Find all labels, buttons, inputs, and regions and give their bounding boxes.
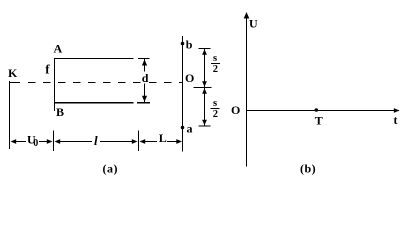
bottom dimension tick at plates right — [138, 131, 140, 152]
l segment right arrowhead — [132, 139, 138, 144]
s/2 upper arrowhead up — [202, 49, 207, 55]
s/2 dimension upper arrow line — [204, 49, 206, 88]
svg-text:l: l — [94, 133, 98, 148]
beam axis dashed line first dash — [10, 82, 21, 84]
graph U axis arrowhead — [244, 12, 250, 19]
plate A top plate — [54, 58, 134, 60]
s/2 upper arrowhead down — [202, 81, 207, 87]
screen point b dot — [181, 42, 185, 46]
s/2 dimension top tick — [199, 48, 211, 50]
plate B bottom plate — [54, 102, 134, 104]
gap d dimension up arrowhead — [142, 60, 147, 66]
svg-text:T: T — [315, 114, 323, 128]
L segment left arrowhead — [140, 139, 146, 144]
gap d dimension arrow line upper — [144, 59, 146, 72]
graph U axis vertical — [246, 13, 248, 167]
svg-text:f: f — [45, 62, 50, 77]
gap d dimension bottom tick — [137, 102, 150, 104]
svg-text:d: d — [142, 71, 149, 85]
L segment right arrowhead — [176, 139, 182, 144]
svg-text:A: A — [54, 42, 63, 56]
svg-text:(a): (a) — [103, 162, 119, 176]
beam axis dashed line right of d label — [149, 82, 183, 84]
svg-text:B: B — [56, 105, 64, 119]
s/2 lower arrowhead up — [202, 88, 207, 94]
svg-text:s: s — [213, 53, 217, 64]
svg-text:O: O — [231, 103, 240, 117]
svg-text:2: 2 — [213, 64, 218, 75]
L segment left line — [144, 141, 157, 143]
left extension line below K — [9, 81, 11, 149]
svg-text:a: a — [187, 122, 193, 136]
svg-text:b: b — [186, 38, 193, 52]
gap d dimension arrow line lower — [144, 84, 146, 103]
screen vertical line — [182, 36, 184, 152]
graph t axis arrowhead — [394, 108, 400, 113]
gap d dimension down arrowhead — [142, 96, 147, 102]
svg-text:O: O — [185, 71, 194, 85]
beam axis dashed line left of d label — [28, 82, 141, 84]
l segment left line — [59, 141, 92, 143]
gap d dimension top tick — [138, 58, 150, 60]
s/2 lower arrowhead down — [202, 120, 207, 126]
svg-text:0: 0 — [33, 138, 38, 149]
svg-text:(b): (b) — [300, 162, 316, 176]
L segment right line — [167, 141, 178, 143]
svg-text:U: U — [249, 17, 258, 31]
graph t axis horizontal — [246, 110, 399, 112]
svg-text:2: 2 — [213, 109, 218, 120]
s/2 dimension middle tick — [194, 87, 212, 89]
l segment left arrowhead — [55, 139, 61, 144]
screen point a dot — [181, 126, 185, 130]
U0 segment left line — [15, 141, 26, 143]
svg-text:t: t — [394, 113, 398, 127]
graph point T dot — [315, 108, 319, 112]
U0 segment right arrowhead — [47, 139, 53, 144]
U0 segment right line — [39, 141, 48, 143]
bottom dimension tick at plates left — [53, 131, 55, 152]
svg-text:s: s — [213, 98, 217, 109]
svg-text:L: L — [159, 131, 167, 145]
s/2 dimension lower arrow line — [204, 88, 206, 127]
l segment right line — [100, 141, 133, 143]
plates left edge vertical — [54, 58, 56, 111]
lower fraction bar — [211, 108, 220, 110]
U0 segment left arrowhead — [11, 139, 17, 144]
s/2 dimension bottom tick — [199, 125, 211, 127]
upper fraction bar — [211, 63, 220, 65]
svg-text:K: K — [8, 66, 18, 80]
